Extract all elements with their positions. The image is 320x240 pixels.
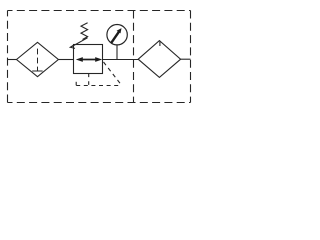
wire: lubricator to right boundary	[181, 58, 191, 60]
filter element dashed centerline	[37, 45, 39, 71]
wire: inlet from left boundary to filter	[8, 59, 18, 61]
gauge needle	[111, 32, 119, 43]
pilot line: dashed horizontal run	[76, 85, 121, 87]
regulator pilot line: dashed drop from body bottom	[88, 74, 90, 86]
wire: gauge stem	[116, 45, 118, 60]
lubricator L (diamond)	[138, 41, 180, 78]
filter F (diamond)	[17, 42, 59, 76]
pilot line: dashed diagonal from outlet	[104, 62, 122, 85]
lubricator drip line	[159, 41, 161, 46]
wire: regulator outlet to lubricator	[103, 59, 139, 61]
regulator spring (zigzag)	[81, 23, 88, 40]
wire: filter to regulator	[58, 59, 74, 61]
regulator R (square body)	[74, 45, 103, 74]
filter sump chord	[32, 70, 42, 72]
pilot line corner tick	[75, 82, 77, 86]
regulator flow double arrow	[80, 59, 96, 61]
regulator adjustment arrow (diagonal)	[71, 38, 88, 47]
internal dashed divider between regulator and lubricator sections	[133, 11, 135, 103]
pressure gauge G (circle)	[107, 25, 127, 45]
enclosure dashed boundary box	[8, 10, 191, 12]
